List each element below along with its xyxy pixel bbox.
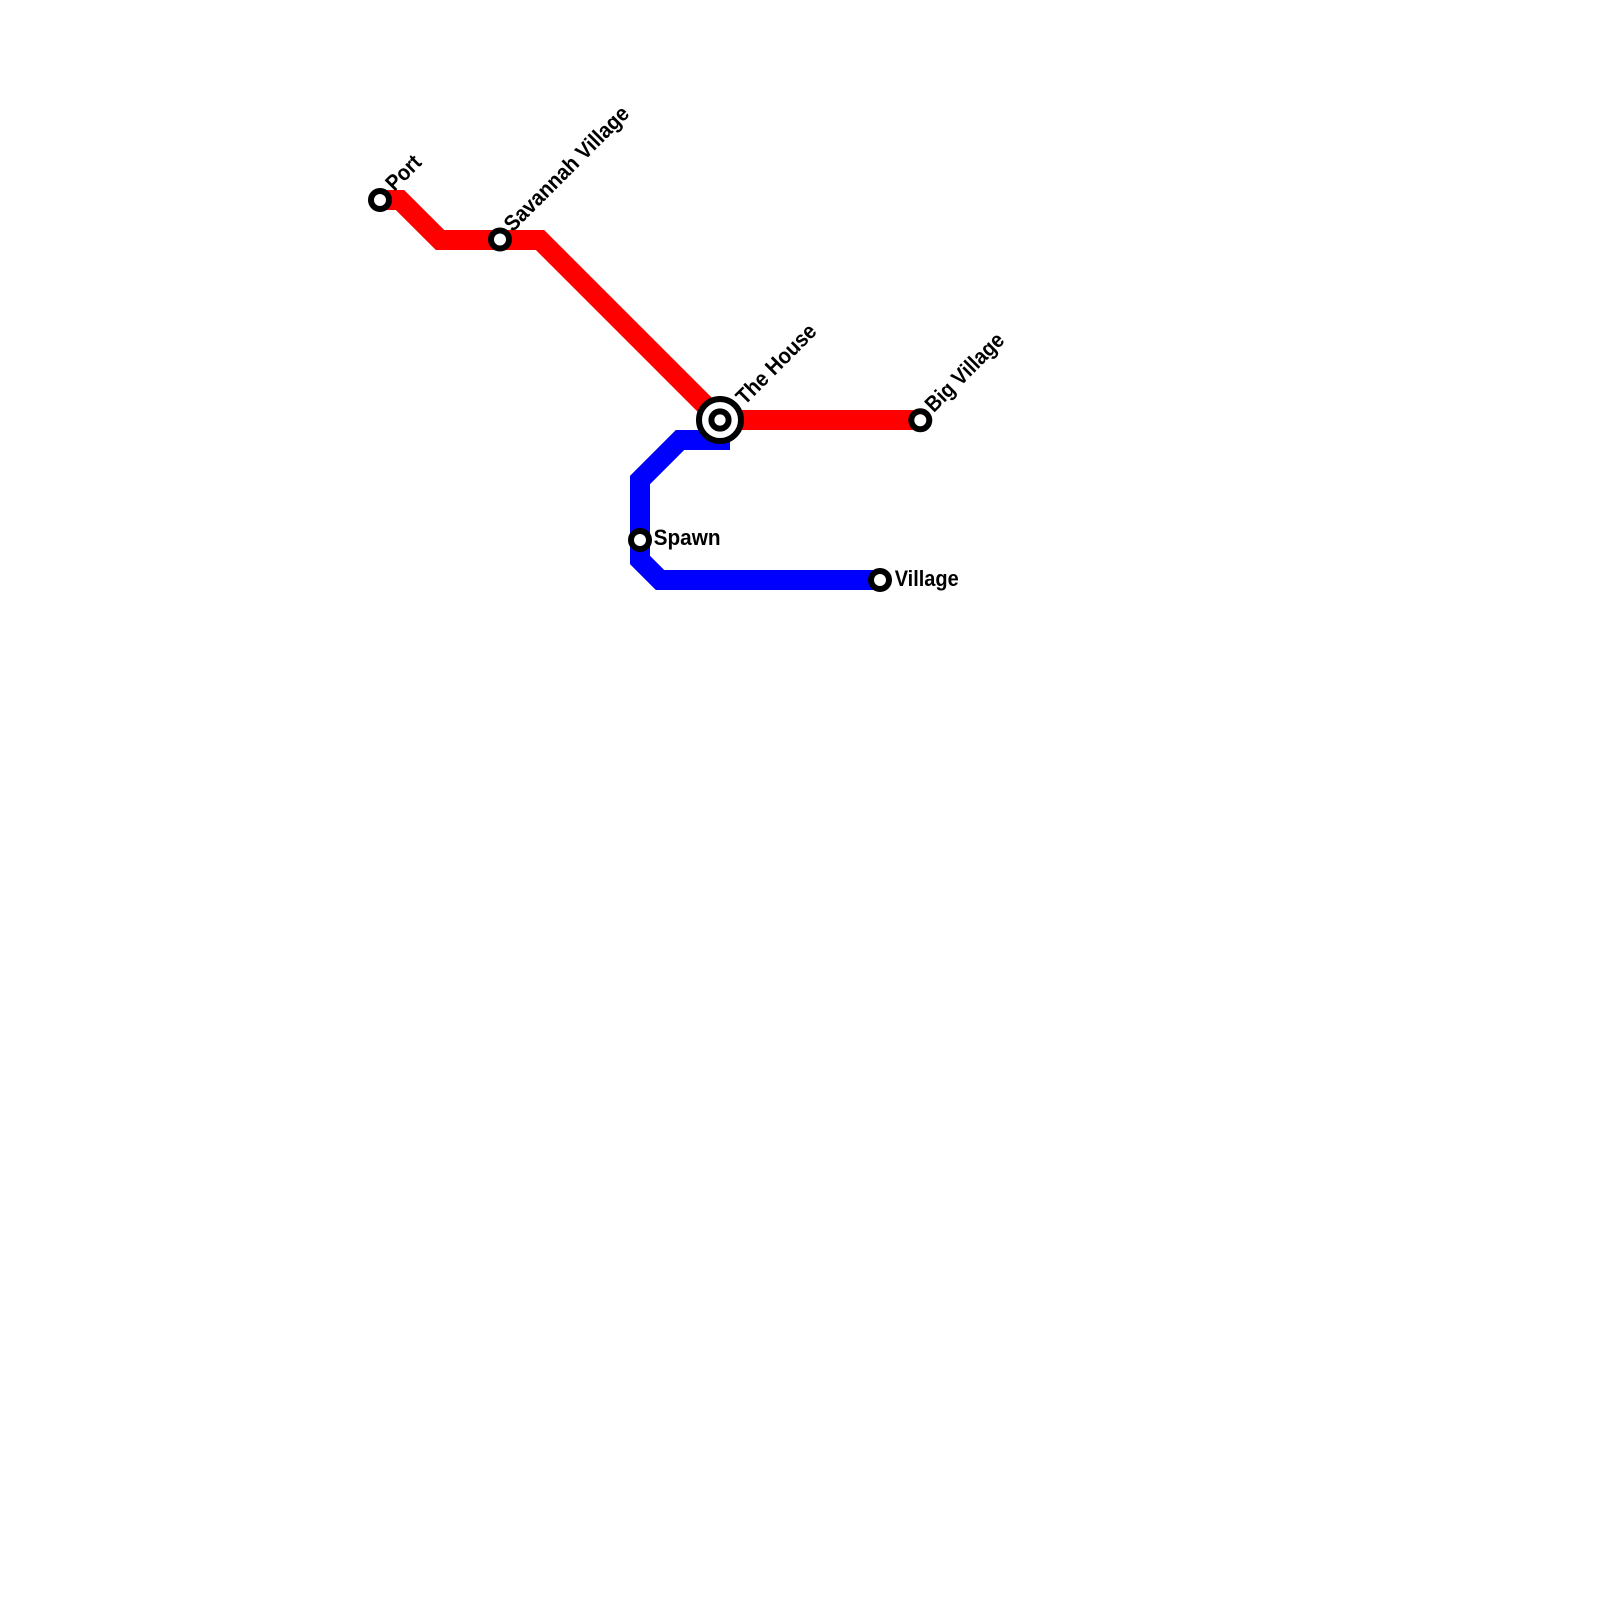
interchange station The House [699, 399, 741, 441]
red line (Port - Savannah Village - The House - Big Village) [380, 200, 920, 420]
station Port [371, 191, 389, 209]
station Village [871, 571, 889, 589]
blue line (The House - Spawn - Village) [640, 440, 880, 580]
station Spawn [631, 531, 649, 549]
svg-text:Spawn: Spawn [654, 525, 721, 550]
svg-text:Village: Village [895, 566, 959, 591]
station Savannah Village [491, 231, 509, 249]
station Big Village [911, 411, 929, 429]
